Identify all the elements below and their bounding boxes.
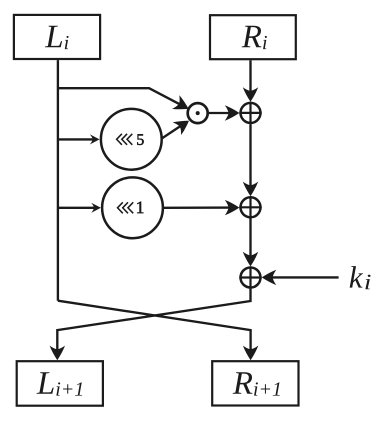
arrowhead into Ri+1 box [243,346,258,361]
wire branch into rot1 [58,207,95,209]
rot1 circle [102,177,163,238]
arrowhead into Li+1 box [50,346,65,361]
arrowhead into xor1 from Ri [243,87,258,102]
xor1 circle [239,102,261,124]
arrowhead into AND from Li branch [172,95,192,115]
arrowhead into rot1 [91,203,101,213]
wire xor2 to xor3 [249,218,251,263]
label Li [45,26,69,49]
arrowhead into rot5 [90,134,100,144]
wire from Li box down left side [57,60,59,301]
rot5 circle [101,109,162,170]
arrowhead into xor3 from ki [262,270,277,285]
label Ri [242,26,267,49]
box Li+1 [17,361,103,406]
wire xor3 output crossing to Li+1 [57,289,250,357]
label rot1 digit [137,202,143,213]
wire xor1 to xor2 [249,124,251,193]
label ki [350,266,371,289]
wire Li crossing to Ri+1 [58,301,251,357]
arrowhead into xor3 from xor2 [243,252,258,267]
arrowhead into AND from rot5 [173,114,194,135]
label Ri+1 [233,372,280,395]
box Ri+1 [212,361,298,405]
label rot1 chevrons [118,202,134,213]
xor2 circle [239,196,261,218]
arrowhead into xor2 from rot1 [225,200,240,215]
box Ri [210,15,296,59]
wire ki to xor3 [265,276,339,278]
box Li [14,15,100,59]
wire rot1 to xor2 [164,206,237,209]
arrowhead into xor1 from AND [225,105,240,120]
wire branch into rot5 [58,138,94,140]
xor3 circle [239,266,261,288]
wire rot5 to AND node [161,122,187,139]
wire branch to AND node [58,88,187,108]
wire AND node to xor1 [209,112,237,114]
AND node circle with dot [188,103,208,123]
label Li+1 [37,372,83,395]
label rot5 chevrons [117,134,133,145]
label rot5 digit [137,134,143,145]
wire Ri box down to xor1 [249,60,251,99]
arrowhead into xor2 from xor1 [243,182,258,197]
